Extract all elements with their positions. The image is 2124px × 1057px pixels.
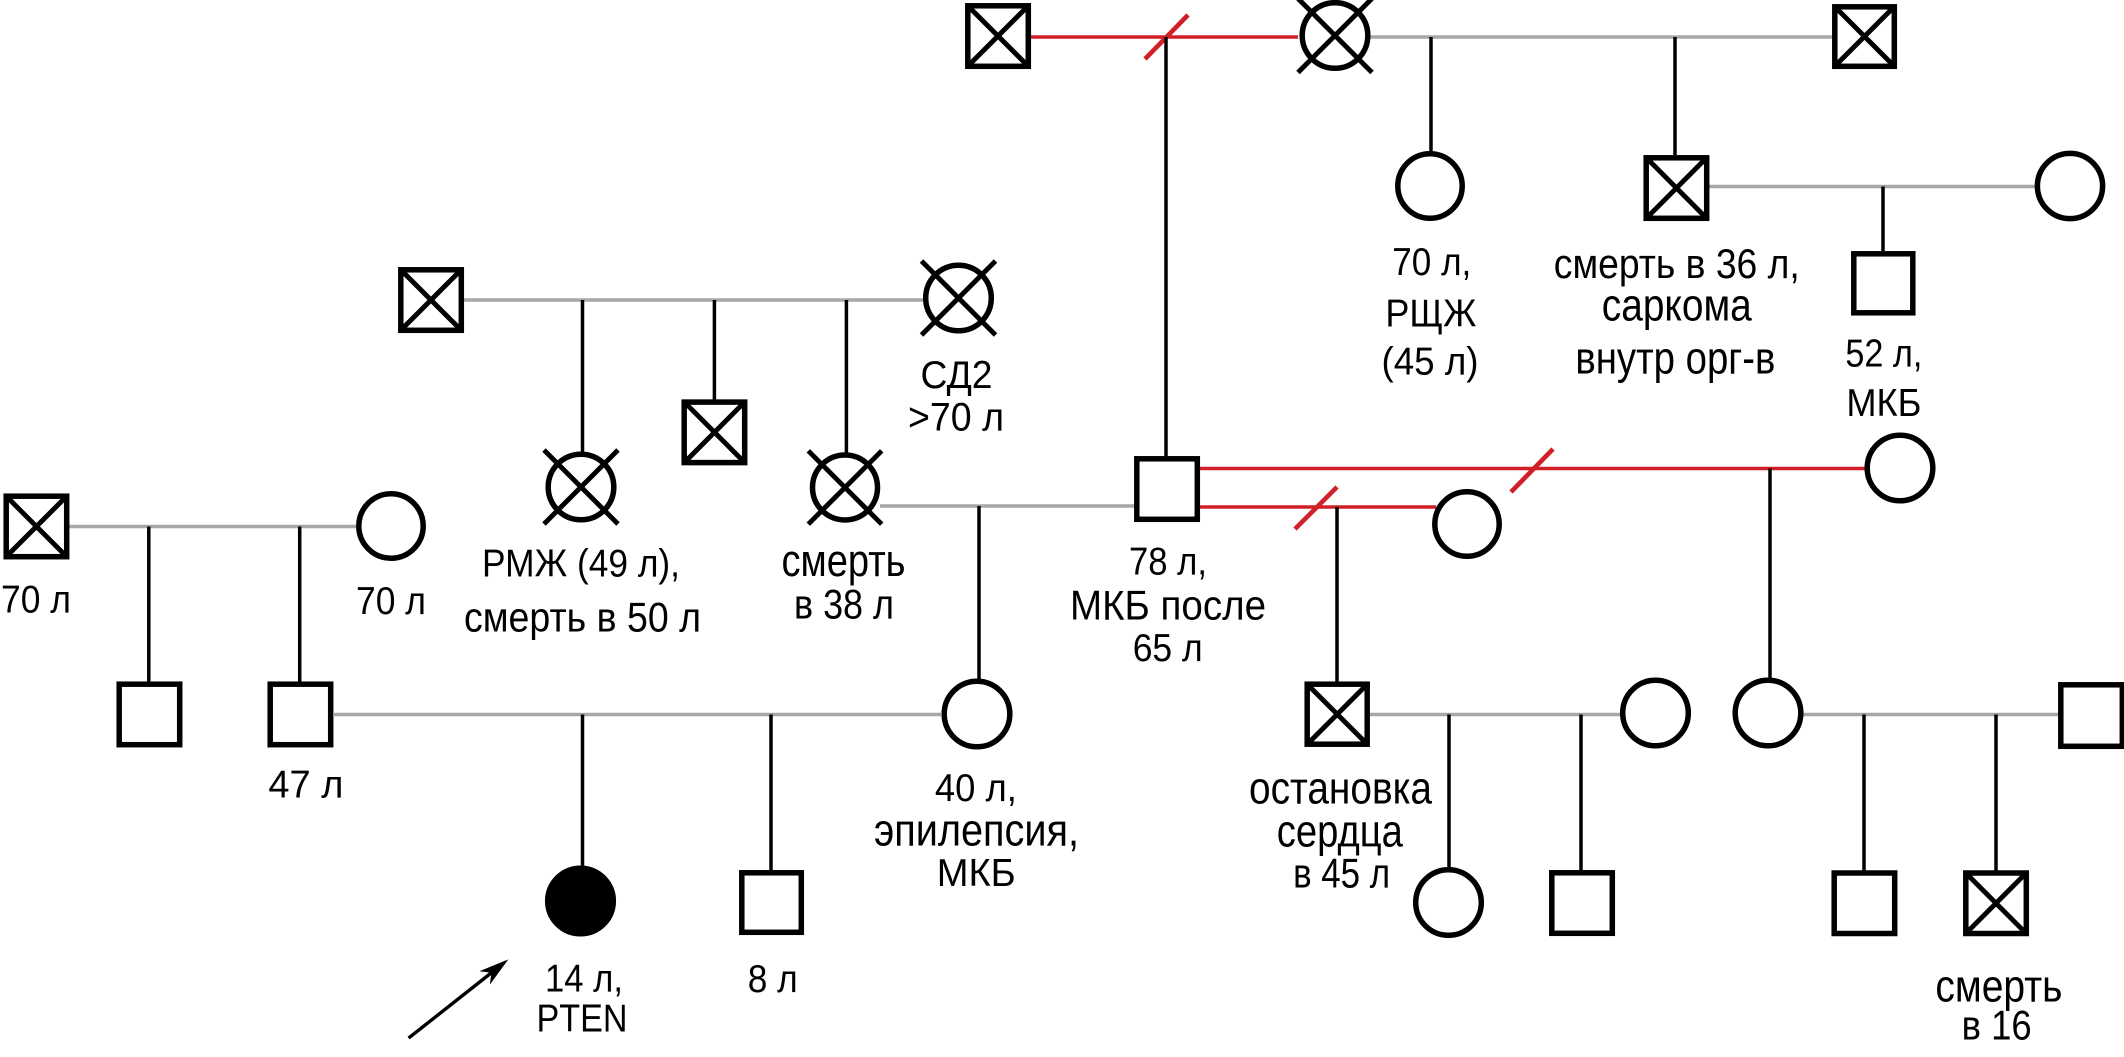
- female II-7 (second wife): [1435, 492, 1499, 556]
- svg-text:52 л,: 52 л,: [1845, 333, 1922, 376]
- svg-text:МКБ: МКБ: [1846, 382, 1921, 425]
- marriage line III-d/III-f: [1370, 713, 1621, 717]
- descent line to III-b (47 л): [298, 527, 302, 685]
- svg-text:70 л: 70 л: [1, 579, 71, 622]
- divorce slash on I-1/I-2 line: [1145, 15, 1188, 59]
- marriage line I-1/I-2 (divorced, red): [1031, 35, 1298, 39]
- deceased female II-c (РМЖ 49 л): [544, 450, 618, 524]
- descent line to II-c (РМЖ): [581, 300, 585, 456]
- svg-text:эпилепсия,: эпилепсия,: [874, 804, 1079, 855]
- female III-e: [1735, 680, 1801, 746]
- svg-text:8 л: 8 л: [748, 958, 798, 1001]
- svg-text:14 л,: 14 л,: [545, 957, 623, 1000]
- svg-text:78 л,: 78 л,: [1129, 541, 1207, 584]
- svg-text:>70 л: >70 л: [908, 396, 1004, 440]
- deceased male II-f (70 л): [6, 496, 66, 557]
- male IV-2 (8 л): [742, 873, 802, 933]
- female III-f: [1623, 680, 1689, 746]
- svg-text:65 л: 65 л: [1133, 627, 1203, 670]
- male IV-4: [1552, 873, 1613, 934]
- svg-text:МКБ после: МКБ после: [1070, 581, 1266, 628]
- female IV-3: [1416, 870, 1482, 936]
- male III-a: [119, 684, 180, 745]
- marriage line II-6/II-7 (divorced, red): [1199, 505, 1436, 509]
- descent line to II-d: [713, 300, 717, 404]
- female III-c (40 л, эпилепсия, МКБ): [944, 681, 1010, 747]
- deceased male II-d: [684, 402, 745, 463]
- descent line II-e/II-6 to III-c (40 л): [977, 506, 981, 679]
- descent line I-2/I-3 to II-9: [1673, 37, 1677, 155]
- deceased male IV-6 (смерть в 16): [1966, 873, 2027, 934]
- descent line II-6/II-7 to III-d (остановка сердца): [1335, 507, 1339, 683]
- descent line II-6/II-11 to III-e: [1768, 469, 1772, 680]
- deceased male III-d (остановка сердца в 45 л): [1307, 684, 1367, 744]
- deceased male II-9 (смерть в 36 л): [1646, 158, 1707, 219]
- svg-text:в 45 л: в 45 л: [1293, 850, 1390, 897]
- proband arrow: [409, 959, 509, 1038]
- female II-11 (third wife): [1867, 435, 1933, 501]
- deceased female I-2: [1298, 0, 1372, 73]
- descent line I-1/I-2 to II-6 (78 л): [1164, 37, 1168, 456]
- divorce slash on II-6/II-7 line: [1295, 487, 1337, 529]
- svg-text:РЩЖ: РЩЖ: [1385, 292, 1476, 335]
- marriage line I-2/I-3: [1370, 35, 1832, 39]
- svg-text:в 16: в 16: [1962, 1002, 2032, 1049]
- deceased female II-e (смерть в 38 л): [808, 451, 881, 524]
- descent line I-2/I-3 to II-8: [1429, 37, 1433, 152]
- female II-g (70 л): [359, 494, 423, 558]
- descent line to IV-5: [1862, 715, 1866, 873]
- deceased male I-1: [968, 6, 1029, 67]
- svg-text:саркома: саркома: [1602, 279, 1753, 330]
- male II-6 (78 л, МКБ после 65 л): [1137, 459, 1198, 520]
- marriage line II-6/II-11 (divorced, red): [1199, 467, 1866, 471]
- descent line to IV-6 (смерть в 16): [1994, 715, 1998, 873]
- male III (52 л, МКБ): [1854, 254, 1913, 313]
- deceased male II-a: [401, 270, 462, 331]
- female II-10: [2037, 153, 2102, 218]
- svg-text:смерть в 50 л: смерть в 50 л: [464, 594, 701, 641]
- descent line to II-e (смерть в 38): [845, 300, 849, 453]
- deceased male I-3: [1835, 7, 1895, 67]
- descent line to IV-3: [1447, 715, 1451, 869]
- descent line to IV-2 (8 л): [769, 715, 773, 872]
- proband IV-1 (affected female, 14 л PTEN): [548, 868, 614, 934]
- svg-text:СД2: СД2: [921, 354, 993, 397]
- svg-text:PTEN: PTEN: [537, 998, 628, 1041]
- marriage line II-f/II-g (70 л couple): [69, 525, 356, 529]
- svg-text:в 38 л: в 38 л: [794, 581, 894, 628]
- deceased female II-b (СД2 >70 л): [922, 261, 996, 335]
- marriage line III-e/III-g: [1802, 713, 2058, 717]
- marriage line II-a/II-b (СД2): [464, 298, 925, 302]
- descent line to IV-1 (proband): [581, 715, 585, 868]
- female II-8 (70 л, РЩЖ): [1398, 154, 1462, 218]
- marriage line III-b/III-c: [333, 713, 941, 717]
- descent line II-9/II-10 to III-son (52 л): [1881, 187, 1885, 252]
- svg-text:смерть: смерть: [782, 535, 906, 586]
- marriage line II-e/II-6: [880, 504, 1134, 508]
- svg-text:МКБ: МКБ: [937, 852, 1016, 895]
- male III-g: [2061, 685, 2123, 747]
- svg-text:47 л: 47 л: [268, 764, 343, 807]
- svg-text:(45 л): (45 л): [1382, 341, 1479, 384]
- male III-b (47 л): [270, 684, 331, 745]
- marriage line II-9/II-10: [1709, 185, 2036, 189]
- divorce slash on II-6/II-11 line: [1511, 449, 1553, 492]
- descent line to III-a: [147, 527, 151, 685]
- svg-text:70 л: 70 л: [356, 580, 426, 623]
- svg-text:РМЖ (49 л),: РМЖ (49 л),: [482, 543, 680, 586]
- male IV-5: [1834, 873, 1895, 934]
- svg-text:70 л,: 70 л,: [1392, 241, 1471, 284]
- descent line to IV-4: [1579, 715, 1583, 873]
- svg-text:внутр орг-в: внутр орг-в: [1575, 332, 1775, 383]
